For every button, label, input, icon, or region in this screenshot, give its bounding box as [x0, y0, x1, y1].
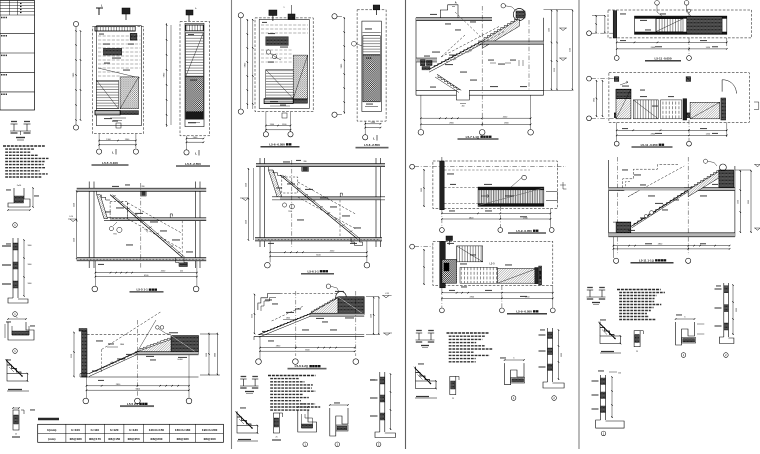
detail channel section: [8, 188, 30, 207]
plan L5-6 upper narrow - bottom dims: [365, 123, 380, 125]
plan L5-9 lower - outer dashed boundary: [433, 241, 553, 285]
svg-text:3000: 3000: [561, 353, 563, 357]
section L5-11 1-1 - bottom slab: [609, 233, 735, 237]
plan L5-5 upper narrow - bottom cell: [188, 122, 200, 124]
svg-text:L5-9: L5-9: [489, 263, 495, 266]
svg-text:L: L: [195, 152, 197, 156]
section L5-7 1-1 - bottom dim lines: [421, 117, 531, 119]
section L5-11 1-1 - left box edge: [608, 160, 610, 237]
svg-text:1800: 1800: [28, 264, 32, 266]
section L5-6 1-1 - stair flight stringer: [280, 175, 357, 239]
section 1-1 - bottom floor slab: [77, 258, 207, 261]
svg-text:h(mm): h(mm): [47, 428, 56, 432]
section L5-6 2-2 - lower flight treads zigzag: [264, 314, 311, 333]
section L5-7 1-1 - lower flight going down: [437, 74, 461, 90]
svg-text:L5-5 -2.550: L5-5 -2.550: [185, 162, 201, 166]
section L5-6 2-2 - right dim chain: [373, 297, 375, 335]
section L5-6 2-2 - grid dashed verticals: [295, 291, 297, 356]
svg-text:2600: 2600: [421, 188, 423, 192]
stair slab rebar table: [38, 424, 224, 442]
plan L5-9 upper - callout circle: [522, 175, 527, 180]
plan L5-9 lower - dims below: [442, 292, 553, 294]
plan L5-11 lower - grid bubbles bottom: [614, 141, 619, 146]
plan L5-11 upper - left dim chain: [595, 15, 597, 33]
plan L5-9 lower - right dark caps: [535, 268, 538, 284]
section L5-7 1-1 - grid dashed verticals: [481, 6, 483, 127]
plan L5-11 lower - column markers: [614, 77, 619, 82]
plan L5-5 upper narrow - upper treads: [186, 33, 204, 77]
section L5-7 1-1 - mid landing slab: [482, 41, 543, 44]
plan L5-6 upper narrow - lower dense hatch: [363, 55, 380, 102]
section L5-11 1-1 - detail circle: [720, 164, 727, 171]
section 1-1 - grid bubbles: [92, 286, 98, 292]
svg-text:h=120: h=120: [110, 428, 119, 432]
general notes col3: [447, 332, 490, 334]
section L5-6 1-1 - dashed landing void: [282, 177, 298, 193]
section L5-11 1-1 - bottom-left pad dark: [616, 222, 631, 233]
plan L5-6 lower - section cut symbols top: [269, 10, 277, 16]
section L5-7 1-1 - upper flight hatched: [482, 19, 519, 48]
section L5-7 1-1 - mid small marks: [490, 62, 496, 64]
section L5-6 1-1 - handrail hook mid: [340, 193, 342, 197]
section L5-6 1-1 - grid dashed verticals: [291, 160, 293, 247]
plan L5-5 upper narrow - inner walls: [185, 23, 204, 126]
plan L5-6 lower - bottom marks: [270, 105, 290, 107]
plan L5-9 upper - grid bubbles bottom: [440, 228, 445, 233]
svg-text:450: 450: [462, 106, 465, 108]
section 1-1 - grid dashed verticals: [140, 183, 142, 268]
svg-text:3000: 3000: [736, 308, 738, 312]
plan L5-6 upper narrow - bottom cell: [365, 106, 378, 108]
section 2-2 - grid bubbles: [83, 398, 89, 404]
plan L5-5 lower - top landing beam dark band: [95, 27, 135, 31]
svg-text:1530: 1530: [737, 200, 739, 204]
svg-text:1800: 1800: [28, 245, 32, 247]
section L5-7 1-1 - detail circle top right: [513, 9, 525, 21]
section L5-7 1-1 - left landing support dark: [421, 60, 426, 66]
plan L5-9 lower - left dim chain: [423, 249, 425, 285]
svg-text:Φ6@150: Φ6@150: [108, 437, 120, 441]
sheet separator line 2: [405, 0, 407, 449]
annotation marks section L5-6 1-1: [283, 161, 290, 162]
annotation marks section 1-1: [112, 186, 119, 187]
plan L5-5 lower - dark tread band upper: [103, 48, 121, 55]
svg-text:A: A: [455, 0, 457, 4]
circled 2 col3: [552, 396, 557, 401]
section L5-6 1-1 - right wall lines: [375, 158, 377, 247]
plan L5-11 upper - grid bubbles bottom: [614, 56, 619, 61]
section L5-7 1-1 - main flight stringer: [429, 41, 482, 69]
plan L5-6 lower - left flight treads: [266, 70, 294, 99]
section L5-7 1-1 - dark bits near circle: [516, 11, 525, 18]
annotation marks planA: [447, 173, 454, 174]
section 2-2 - callout circles top: [156, 326, 160, 330]
plan L5-6 upper narrow - upper treads: [363, 36, 380, 55]
section 2-2 - dashed vertical: [101, 350, 103, 374]
svg-text:2550: 2550: [252, 314, 254, 318]
section 1-1 - right wall lines: [195, 182, 197, 269]
section L5-6 1-1 - flight tread ticks: [283, 176, 286, 177]
section 2-2 - wall cap marks: [79, 329, 87, 332]
title-block table top-left: [0, 1, 35, 111]
section L5-11 1-1 - bottom dim lines: [613, 245, 729, 247]
section 2-2 - gray hatched upper flight: [137, 339, 171, 351]
section L5-6 2-2 - top dashed boundary: [280, 293, 338, 295]
svg-text:1530: 1530: [371, 314, 373, 318]
plan L5-6 lower - grid bubbles left: [238, 13, 243, 18]
section L5-11 1-1 - upper flight stepped outline: [617, 165, 678, 191]
plan L5-6 upper narrow - grid bubble bottom: [363, 135, 368, 140]
svg-text:25: 25: [452, 398, 454, 400]
plan L5-9 lower - grid bubbles bottom: [440, 308, 445, 313]
section 2-2 - bottom dim lines: [87, 385, 190, 387]
svg-text:25: 25: [15, 434, 17, 436]
svg-text:5100: 5100: [570, 48, 572, 52]
circled 1 col2-d: [335, 442, 340, 447]
plan L5-6 lower - upper dashed lines: [261, 24, 308, 26]
svg-text:Φ6@180: Φ6@180: [70, 437, 82, 441]
section L5-7 1-1 - upper flight zigzag steps: [484, 18, 521, 40]
stair slab rebar table title: [38, 418, 59, 421]
section L5-11 1-1 - main flight treads zigzag: [634, 191, 688, 226]
svg-text:2600: 2600: [594, 98, 596, 102]
section L5-6 2-2 - detail circle: [336, 292, 346, 302]
detail anchor bar col2: [273, 413, 279, 433]
svg-text:L5-7 1-1(): L5-7 1-1(): [466, 135, 479, 139]
section L5-7 1-1 - top-left parapet notch: [440, 5, 458, 18]
plan L5-5 upper narrow - top beam dark: [186, 25, 204, 31]
plan L5-6 lower - grid bubbles bottom: [263, 132, 268, 137]
svg-text:3060: 3060: [748, 200, 750, 204]
svg-text:L5-6 -2.550: L5-6 -2.550: [364, 143, 380, 147]
svg-text:L5-5 2-2: L5-5 2-2: [127, 402, 139, 406]
plan L5-6 upper narrow - top cell: [363, 31, 381, 33]
section L5-6 2-2 - top-left stepped parapet: [258, 294, 280, 310]
circled 1 col4 bottom: [601, 431, 606, 436]
section L5-7 1-1 - left landing slab gray: [416, 58, 437, 62]
svg-text:2550: 2550: [74, 238, 76, 242]
plan L5-5 lower - bottom dims: [99, 140, 136, 142]
plan L5-9 upper - left dim chain: [423, 169, 425, 207]
plan L5-11 upper - grid bubble left: [587, 31, 592, 36]
section L5-11 1-1 - callout circle: [703, 159, 707, 163]
keynote symbol double-T col4: [589, 290, 591, 297]
plan L5-5 lower - mid dashed lines: [98, 71, 120, 73]
section 1-1 - callout circles on flight: [109, 227, 113, 231]
annotation marks section 2-2: [96, 340, 103, 341]
plan L5-6 lower - bottom dims: [266, 125, 291, 127]
section L5-6 1-1 - mid landing slab: [280, 197, 381, 200]
plan L5-11 lower - outer dashed boundary: [609, 73, 749, 123]
svg-text:Φ8@160: Φ8@160: [204, 437, 216, 441]
plan L5-6 upper narrow - inner walls: [362, 21, 381, 111]
svg-text:TB1: TB1: [288, 211, 291, 213]
section 2-2 - left hatched wall: [82, 332, 87, 377]
sheet separator line 3: [578, 0, 580, 449]
section 2-2 - top boundary line: [87, 334, 171, 336]
detail corner U col4: [676, 322, 695, 345]
section 2-2 - right dim chain: [200, 333, 218, 335]
plan L5-9 lower - section cut symbol top: [446, 236, 453, 241]
section 1-1 - upper flight cut at top: [97, 195, 108, 219]
plan L5-5 lower - grid bubbles bottom: [97, 149, 102, 154]
plan L5-9 lower - left hatch block: [442, 260, 457, 284]
plan L5-5 upper narrow - section cut top: [186, 10, 193, 15]
section 1-1 - left level dim chain: [76, 190, 78, 260]
svg-text:2550: 2550: [554, 68, 556, 72]
section L5-11 1-1 - dark block top right: [719, 170, 734, 187]
svg-text:L5-6 2-2(): L5-6 2-2(): [295, 364, 308, 368]
svg-text:2a300: 2a300: [177, 359, 182, 361]
section L5-6 1-1 - left dim chain: [247, 168, 249, 240]
svg-text:2550: 2550: [71, 354, 73, 358]
detail corner U col2: [330, 408, 348, 436]
section L5-11 1-1 - upper right gray flight: [688, 171, 719, 196]
annotation marks left sidebar details: [6, 189, 11, 190]
plan L5-9 upper - right end bracket: [546, 192, 557, 201]
section L5-6 1-1 - bottom floor slab: [255, 238, 382, 241]
plan L5-5 lower - inner stairwell walls: [97, 26, 142, 126]
plan L5-11 lower - left hatch block: [616, 89, 631, 119]
plan L5-9 upper - flight arrow: [481, 195, 489, 197]
section L5-7 1-1 - bottom slab with pit: [416, 89, 456, 91]
section L5-6 2-2 - far right level marks: [383, 296, 389, 298]
section L5-11 1-1 - dashed grid verticals: [616, 157, 618, 255]
svg-text:L5-5 1-1: L5-5 1-1: [137, 288, 149, 292]
plan L5-9 upper - grid bubble and dashed axis: [410, 164, 415, 169]
plan L5-9 upper - dims below: [442, 212, 551, 214]
plan L5-5 lower - right flight hatch: [120, 77, 139, 109]
svg-text:L5-5 -5.100: L5-5 -5.100: [102, 161, 118, 165]
svg-text:140<h<150: 140<h<150: [149, 428, 165, 432]
section L5-6 2-2 - callout circle top: [326, 284, 330, 288]
general notes text block: [3, 145, 45, 147]
plan L5-9 upper - left wall dark bar: [440, 161, 445, 210]
plan L5-5 upper narrow - bottom dark band: [186, 112, 204, 119]
section L5-7 1-1 - top slab: [416, 18, 492, 21]
section 2-2 - left dim chain: [73, 332, 75, 377]
plan L5-6 lower - outer dashed boundary: [255, 18, 313, 112]
svg-text:Φ8@250: Φ8@250: [128, 437, 140, 441]
section 2-2 - lower flight treads zigzag: [95, 353, 137, 372]
section 1-1 - mid landing slab: [110, 218, 206, 221]
section 1-1 - flight tread ticks: [113, 195, 116, 196]
detail big tall wall col4 bottom: [600, 375, 602, 420]
svg-text:1530: 1530: [206, 353, 208, 357]
detail tall wall col3: [547, 328, 549, 382]
plan L5-6 lower - mid dashed lines: [261, 49, 292, 51]
svg-text:Φ8@200: Φ8@200: [150, 437, 162, 441]
section L5-6 2-2 - bottom dim lines: [260, 347, 355, 349]
plan L5-11 upper - left wall bar: [613, 11, 617, 38]
annotation marks planB: [447, 243, 454, 244]
section 1-1 - top slab beam notch: [141, 191, 146, 196]
section L5-6 1-1 - callout circles on flight: [282, 203, 286, 207]
plan L5-11 lower - right dark cap: [721, 98, 726, 120]
plan L5-5 lower - bottom landing dark band: [95, 110, 120, 115]
plan L5-11 lower - right gray hatch band: [690, 102, 720, 119]
section 2-2 - lower flight stringer: [89, 352, 137, 374]
svg-text:L5-11 -0.050: L5-11 -0.050: [654, 57, 671, 61]
svg-text:2550: 2550: [74, 203, 76, 207]
svg-text:2550: 2550: [245, 220, 247, 224]
section L5-11 1-1 - main flight stringer: [629, 190, 688, 227]
section L5-6 2-2 - grid bubbles: [256, 359, 262, 365]
circled 1 col4: [681, 353, 686, 358]
tall wall section detail: [12, 238, 14, 298]
circled 2 col4: [724, 353, 729, 358]
section L5-7 1-1 - right dim chains: [551, 10, 553, 91]
svg-text:190<h<200: 190<h<200: [202, 428, 218, 432]
plan L5-6 upper narrow - section cut top: [373, 5, 380, 10]
annotation marks plan1: [103, 44, 110, 45]
section 1-1 - dashed landing void: [110, 201, 127, 218]
general notes col4: [617, 289, 661, 291]
section L5-11 1-1 - mid slab full width: [609, 188, 735, 191]
svg-text:b: b: [17, 317, 18, 319]
circled number 1: [13, 223, 18, 228]
annotation marks plan4: [365, 28, 372, 29]
plan L5-5 lower - left flight treads: [97, 80, 119, 108]
plan L5-11 upper - right dense hatch: [687, 17, 723, 34]
section 1-1 - bottom dim lines: [95, 272, 196, 274]
plan L5-11 upper - callout circles top: [655, 1, 660, 6]
plan L5-5 upper narrow - outer dashed boundary: [180, 22, 210, 136]
section L5-6 1-1 - bottom dim lines: [270, 251, 367, 253]
annotation marks planD: [622, 86, 629, 87]
plan L5-6 lower - dark tread band: [266, 37, 289, 46]
plan L5-9 lower - middle dashed treads: [460, 267, 497, 283]
svg-text:25: 25: [276, 437, 278, 439]
plan L5-9 lower - upper-left treads: [457, 246, 483, 262]
svg-text:L5-11 1-1(): L5-11 1-1(): [639, 258, 654, 262]
svg-text:120: 120: [618, 373, 621, 375]
section L5-6 2-2 - upper flight zigzag: [312, 298, 338, 313]
section 1-1 - dashed handrail lines: [127, 203, 182, 234]
plan L5-5 upper narrow - bottom dims: [187, 138, 204, 140]
section L5-6 1-1 - dashed handrail lines: [298, 182, 355, 214]
plan L5-9 lower - grid bubble left: [410, 244, 415, 249]
section L5-7 1-1 - main flight treads: [434, 42, 482, 68]
plan L5-11 lower - dims below: [617, 129, 727, 131]
plan L5-5 lower - upper landing dashed area: [98, 35, 141, 37]
svg-text:1400: 1400: [549, 28, 551, 32]
plan L5-11 upper - dims below: [617, 41, 727, 43]
annotation marks section L5-6 2-2: [265, 299, 272, 300]
section 2-2 - dark hatch block right: [171, 336, 199, 354]
annotation marks section L5-11: [622, 169, 628, 170]
plan L5-6 upper narrow - grid bubbles left: [332, 14, 337, 19]
plan L5-6 lower - bottom dark band: [264, 99, 293, 104]
section 1-1 - top floor slab: [77, 188, 207, 191]
svg-text:L: L: [112, 151, 114, 155]
section L5-6 1-1 - top slab beam notch: [302, 167, 309, 172]
keynote symbol double-T: [13, 124, 15, 131]
svg-text:1800: 1800: [286, 318, 290, 320]
plan L5-9 lower - left wall dark bar: [440, 241, 446, 287]
plan L5-11 upper - flight band box: [635, 16, 727, 34]
section L5-6 1-1 - grid bubbles: [265, 262, 271, 268]
general notes col2: [268, 375, 316, 377]
section L5-7 1-1 - dashed handrail upper: [441, 26, 500, 57]
detail stair-step col4: [599, 322, 601, 337]
svg-text:L5-9 -0.050: L5-9 -0.050: [516, 229, 532, 233]
section L5-6 1-1 - upper flight cut at top: [268, 170, 281, 197]
section L5-11 1-1 - far right level marks: [755, 165, 760, 167]
section 1-1 - stair flight stringer: [110, 195, 182, 258]
detail tall wall col2: [379, 372, 381, 432]
plan L5-6 lower - right hatch region: [293, 55, 308, 99]
annotation marks plan3: [268, 33, 275, 34]
plan L5-9 lower - right hatch band: [497, 269, 537, 284]
section L5-11 1-1 - right box edge: [734, 166, 736, 237]
plan L5-6 upper narrow - callout circle: [352, 41, 357, 46]
section L5-6 2-2 - bottom slab: [258, 334, 364, 336]
svg-text:1800: 1800: [120, 344, 124, 346]
section L5-7 1-1 - box right edge: [543, 18, 545, 96]
section L5-6 2-2 - dashed handrail: [272, 306, 304, 321]
plan L5-5 lower - column marker top right: [130, 33, 137, 40]
section L5-11 1-1 - dashed handrail upper: [628, 166, 684, 197]
plan L5-6 lower - inner walls: [259, 20, 309, 109]
svg-text:(mm): (mm): [48, 437, 55, 441]
stair step detail: [6, 359, 8, 374]
svg-text:Φ8@180: Φ8@180: [177, 437, 189, 441]
section L5-7 1-1 - grid bubbles: [418, 130, 424, 136]
plan L5-11 upper - middle treads: [656, 19, 683, 32]
section 2-2 - upper flight steps zigzag: [140, 338, 171, 350]
detail stair-step col2: [236, 411, 238, 426]
section L5-6 2-2 - slab band under hatch: [310, 313, 365, 316]
svg-text:b: b: [685, 317, 686, 319]
svg-text:L5-6 1-1: L5-6 1-1: [308, 269, 320, 273]
svg-text:280: 280: [304, 161, 307, 163]
plan L5-5 upper narrow - grid bubble: [184, 150, 189, 155]
section 2-2 - bottom slab: [80, 376, 199, 378]
plan L5-11 upper - outer dashed boundary: [608, 10, 752, 38]
circled number 1c: [13, 349, 18, 354]
keynote symbol double-T col3: [418, 333, 420, 340]
detail anchor bar col4: [634, 331, 640, 347]
section L5-11 1-1 - grid bubbles: [614, 258, 619, 263]
plan L5-6 upper narrow - outer dashed boundary: [357, 10, 386, 121]
svg-text:h=110: h=110: [91, 428, 100, 432]
svg-text:L: L: [373, 137, 375, 141]
svg-text:-2.55: -2.55: [385, 293, 389, 295]
section L5-7 1-1 - box left edge: [415, 18, 417, 96]
keynote symbol double-T col2: [242, 379, 244, 386]
svg-text:450: 450: [180, 271, 183, 273]
section 1-1 - flight base pad: [176, 258, 188, 267]
plan L5-11 lower - door swing arc: [721, 80, 723, 92]
section L5-6 2-2 - dark hatch block right: [338, 297, 364, 315]
section 1-1 - left wall lines: [88, 182, 90, 269]
plan L5-6 lower - left dim chain: [246, 19, 248, 109]
annotation marks section L5-7: [430, 14, 437, 15]
plan L5-6 lower - callout circles: [266, 50, 270, 54]
plan L5-11 upper - small marker: [687, 9, 690, 12]
svg-text:160<h<180: 160<h<180: [175, 428, 191, 432]
section L5-6 1-1 - top floor slab: [256, 164, 385, 167]
svg-text:25: 25: [636, 351, 638, 353]
section L5-6 2-2 - lower flight stringer: [259, 314, 311, 335]
section L5-6 1-1 - left wall lines: [259, 158, 261, 247]
svg-text:h=130: h=130: [129, 428, 138, 432]
plan L5-6 upper narrow - left dim chain: [343, 17, 345, 114]
plan L5-11 lower - right small bracket: [754, 102, 759, 109]
circled 1 col2-c: [303, 442, 308, 447]
detail corner U col3: [505, 363, 524, 385]
